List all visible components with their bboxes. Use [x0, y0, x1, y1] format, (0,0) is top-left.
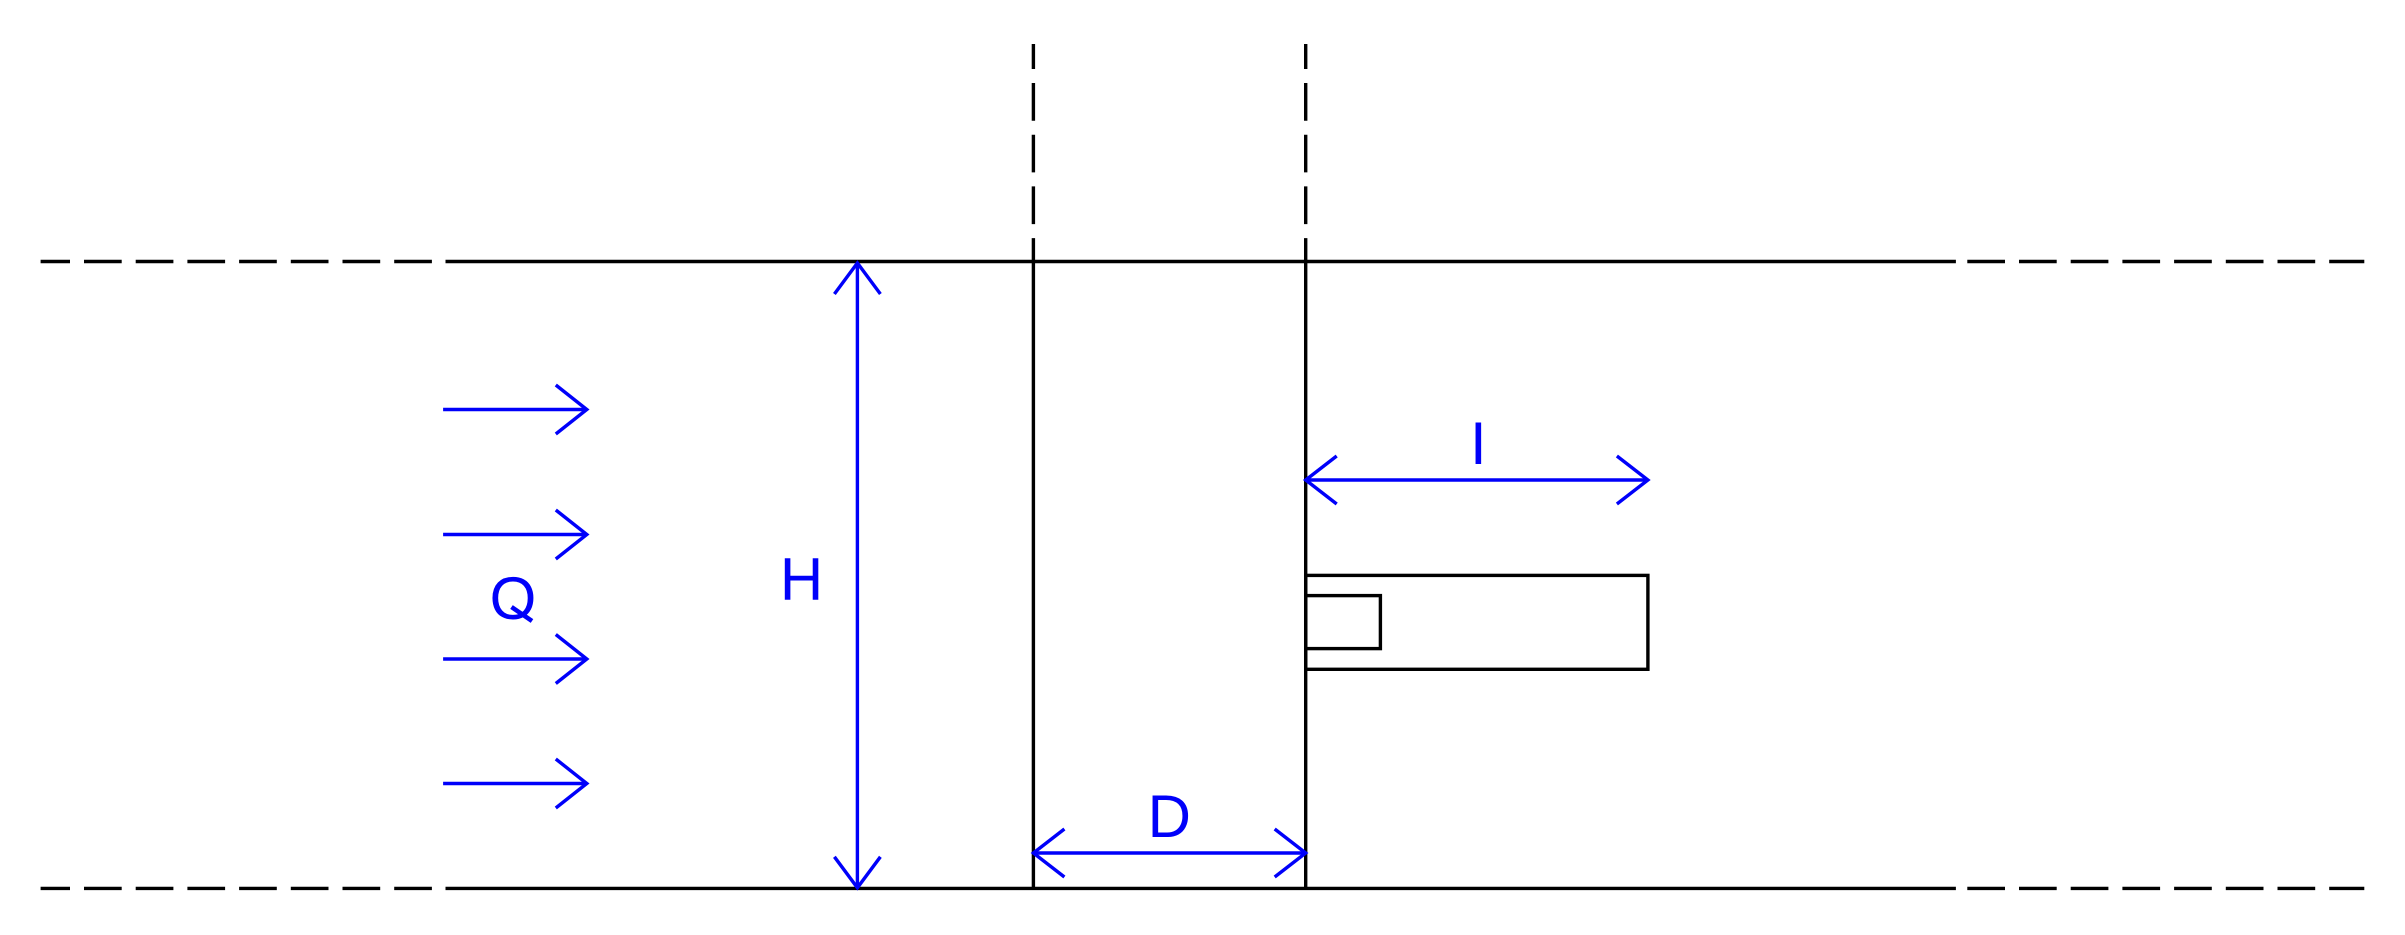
svg-text:I: I	[1470, 410, 1487, 477]
wire bottom channel-bed line dashed right extension	[1956, 887, 2364, 890]
dimension arrow D horizontal double-headed	[1033, 829, 1305, 877]
flow arrow Q3	[443, 635, 587, 684]
label Q tail stroke	[512, 607, 533, 621]
wire left vertical face solid	[1032, 262, 1035, 889]
wire top water-surface line solid middle	[446, 260, 1956, 263]
wire right vertical face solid	[1304, 262, 1307, 889]
wire top water-surface line dashed right extension	[1956, 260, 2364, 263]
wire bottom channel-bed line dashed left extension	[41, 887, 446, 890]
svg-text:D: D	[1148, 783, 1191, 850]
dimension arrow H vertical double-headed	[834, 263, 880, 888]
outer gallery rectangle	[1306, 575, 1648, 669]
flow arrow Q4	[443, 759, 587, 808]
wire top water-surface line dashed left extension	[41, 260, 446, 263]
wire left vertical face dashed upper extension	[1032, 44, 1035, 262]
svg-text:O: O	[490, 565, 537, 632]
inner opening rectangle	[1306, 596, 1381, 649]
dimension arrow I horizontal double-headed	[1306, 456, 1648, 504]
flow arrow Q1	[443, 385, 587, 434]
wire bottom channel-bed line solid middle	[446, 887, 1956, 890]
svg-text:H: H	[780, 546, 823, 613]
flow arrow Q2	[443, 510, 587, 559]
wire right vertical face dashed upper extension	[1304, 44, 1307, 262]
